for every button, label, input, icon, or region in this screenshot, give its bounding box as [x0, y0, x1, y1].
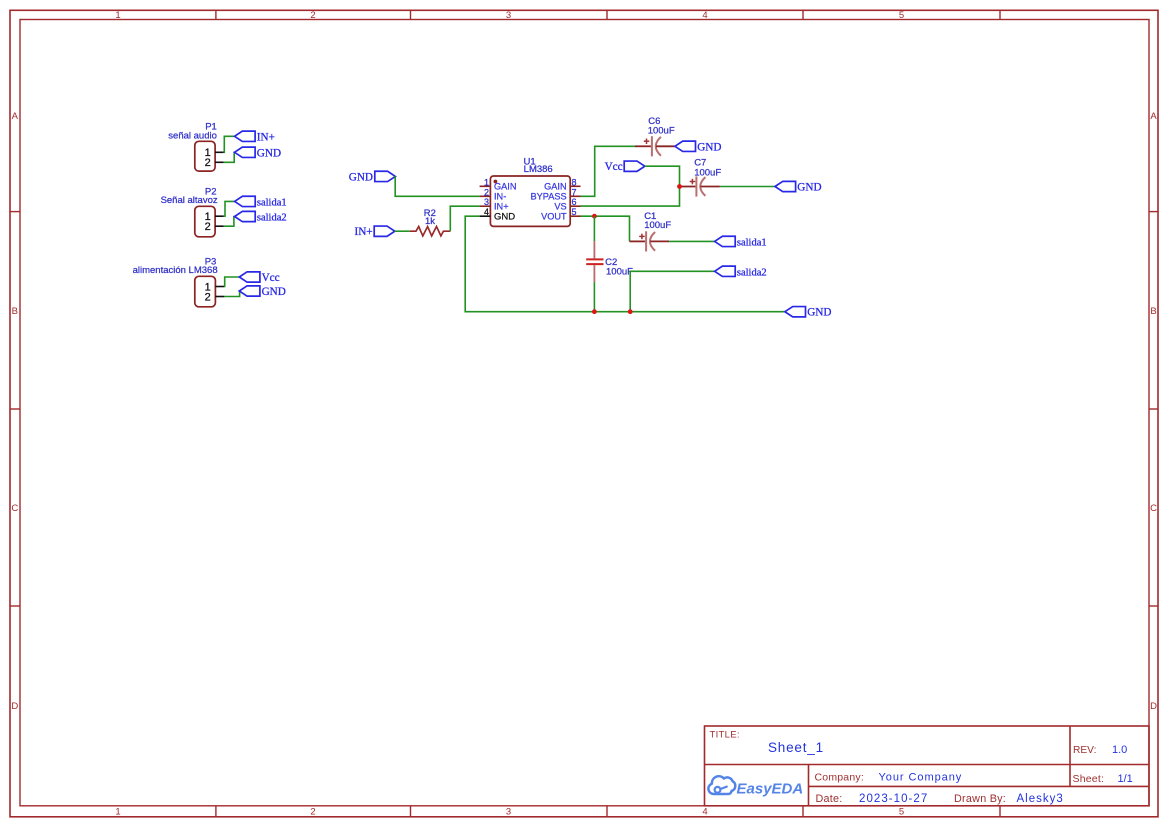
svg-text:100uF: 100uF	[648, 126, 675, 137]
wire IN+ flag to R2	[395, 230, 410, 232]
net flag Vcc (top)	[605, 161, 645, 173]
svg-text:GAIN: GAIN	[544, 182, 566, 192]
svg-text:B: B	[1150, 306, 1156, 317]
svg-text:1/1: 1/1	[1118, 773, 1133, 785]
net flag salida2 (right)	[715, 266, 767, 278]
net flag salida2 (P2)	[235, 211, 287, 223]
P1 pin 2 stub	[215, 161, 224, 163]
EasyEDA logo	[708, 776, 803, 797]
connector P2	[161, 187, 218, 237]
svg-text:GND: GND	[257, 147, 281, 159]
connector P3	[133, 256, 218, 306]
svg-text:2: 2	[205, 291, 211, 303]
svg-text:1: 1	[484, 177, 489, 187]
capacitor C7 100uF	[680, 158, 722, 197]
svg-text:Vcc: Vcc	[262, 272, 280, 284]
svg-text:EasyEDA: EasyEDA	[737, 781, 804, 798]
svg-text:alimentación LM368: alimentación LM368	[133, 265, 218, 276]
svg-text:señal audio: señal audio	[168, 131, 217, 142]
net flag GND (ground rail end)	[785, 307, 832, 319]
svg-text:salida2: salida2	[737, 267, 767, 278]
P2 pin 1 stub	[215, 215, 224, 217]
svg-text:3: 3	[506, 807, 511, 818]
U1 pin 1 (GAIN)	[480, 177, 517, 191]
svg-text:IN-: IN-	[494, 192, 506, 202]
net flag salida1 (P2)	[235, 196, 287, 208]
svg-text:GND: GND	[494, 211, 515, 222]
svg-text:1.0: 1.0	[1112, 744, 1127, 756]
svg-text:7: 7	[572, 187, 577, 197]
frame column ticks top	[216, 10, 1000, 19]
frame row letters right	[1150, 111, 1157, 712]
svg-text:D: D	[1150, 701, 1157, 712]
svg-text:Alesky3: Alesky3	[1017, 793, 1064, 805]
U1 pin 4 (GND)	[480, 207, 516, 222]
wire P3 pin1 to Vcc flag	[224, 277, 239, 287]
svg-text:1: 1	[115, 807, 120, 818]
resistor R2	[410, 208, 451, 236]
wire U1 pin4 to ground rail	[465, 216, 785, 312]
svg-text:salida2: salida2	[257, 213, 287, 224]
wire C2 to ground rail	[593, 282, 595, 312]
net flag GND (top left)	[349, 171, 396, 183]
wire R2 to U1 pin3	[450, 206, 479, 231]
junction salida2 branch / ground rail	[628, 309, 633, 314]
svg-text:3: 3	[506, 10, 511, 21]
svg-text:Drawn By:: Drawn By:	[954, 793, 1006, 805]
svg-text:salida1: salida1	[737, 237, 767, 248]
net flag salida1 (right)	[715, 236, 767, 248]
capacitor C6 100uF	[635, 116, 675, 156]
wire U1 pin7 to C6	[581, 146, 636, 196]
svg-text:Date:: Date:	[816, 793, 843, 805]
wire U1 pin5 to C1	[581, 216, 630, 241]
svg-text:GND: GND	[807, 307, 831, 319]
svg-text:GND: GND	[262, 286, 286, 298]
net flag Vcc (P3)	[239, 272, 279, 284]
svg-text:100uF: 100uF	[694, 167, 721, 178]
title block texts	[710, 730, 1133, 805]
net flag GND (right of C6)	[675, 141, 722, 153]
net flag GND (P3)	[239, 286, 286, 298]
svg-text:2: 2	[205, 157, 211, 169]
svg-text:VOUT: VOUT	[541, 211, 567, 221]
svg-text:A: A	[1150, 111, 1157, 122]
wire C7 to GND flag	[720, 186, 775, 188]
svg-text:100uF: 100uF	[606, 266, 633, 277]
wire salida2 flag to ground rail	[630, 271, 714, 311]
frame row letters left	[11, 111, 18, 712]
capacitor C1 100uF	[630, 211, 672, 252]
svg-text:1k: 1k	[425, 216, 435, 227]
svg-text:Señal altavoz: Señal altavoz	[161, 195, 218, 206]
U1 pin 5 (VOUT)	[541, 207, 580, 221]
svg-text:D: D	[11, 701, 18, 712]
svg-text:Vcc: Vcc	[605, 161, 623, 173]
svg-text:2023-10-27: 2023-10-27	[859, 793, 928, 805]
wire Vcc to U1 pin6	[581, 166, 680, 206]
svg-text:Company:: Company:	[815, 772, 864, 784]
junction C2 / ground rail	[592, 309, 597, 314]
connector P1	[168, 121, 217, 171]
svg-text:5: 5	[572, 207, 577, 217]
svg-text:GND: GND	[349, 171, 373, 183]
svg-text:REV:: REV:	[1073, 745, 1096, 756]
svg-text:LM386: LM386	[524, 164, 553, 175]
svg-text:salida1: salida1	[257, 197, 287, 208]
wire P1 pin1 to IN+ flag	[224, 136, 235, 152]
wire P2 pin2 to salida2 flag	[224, 217, 235, 227]
svg-text:4: 4	[484, 207, 489, 217]
net flag IN+ (left of R2)	[354, 226, 394, 238]
U1 pin 7 (BYPASS)	[531, 187, 581, 201]
capacitor C2 100uF	[586, 241, 633, 282]
svg-text:6: 6	[572, 197, 577, 207]
frame column numbers top	[115, 10, 904, 21]
wire C1 to salida1 flag	[669, 240, 715, 242]
U1 pin 8 (GAIN)	[544, 177, 580, 191]
P3 pin 2 stub	[215, 296, 224, 298]
svg-text:IN+: IN+	[354, 226, 372, 238]
svg-text:GAIN: GAIN	[494, 182, 516, 192]
wire U1 pin5 junction down to C2	[593, 216, 595, 241]
wire P3 pin2 to GND flag	[224, 291, 239, 297]
U1 pin 3 (IN+)	[480, 197, 509, 211]
P3 pin 1 stub	[215, 286, 224, 288]
frame column numbers bottom	[115, 807, 904, 818]
svg-text:TITLE:: TITLE:	[710, 730, 740, 741]
svg-text:4: 4	[702, 807, 707, 818]
title block border	[705, 726, 1150, 806]
frame row ticks left	[10, 212, 20, 606]
svg-text:IN+: IN+	[494, 201, 509, 211]
svg-text:C: C	[11, 503, 18, 514]
svg-text:100uF: 100uF	[644, 220, 671, 231]
svg-text:3: 3	[484, 197, 489, 207]
svg-text:GND: GND	[797, 182, 821, 194]
U1 pin 2 (IN-)	[480, 187, 507, 201]
svg-text:2: 2	[310, 10, 315, 21]
svg-text:A: A	[12, 111, 19, 122]
svg-text:Sheet:: Sheet:	[1073, 773, 1105, 785]
svg-text:VS: VS	[554, 201, 566, 211]
svg-text:C: C	[1150, 503, 1157, 514]
svg-text:2: 2	[205, 221, 211, 233]
svg-text:Your Company: Your Company	[879, 772, 963, 784]
svg-text:Sheet_1: Sheet_1	[768, 740, 824, 755]
svg-text:2: 2	[310, 807, 315, 818]
U1 pin 6 (VS)	[554, 197, 580, 211]
net flag GND (P1)	[235, 147, 282, 159]
wire P1 pin2 to GND flag	[224, 152, 235, 162]
P1 pin 1 stub	[215, 151, 224, 153]
wire P2 pin1 to salida1 flag	[224, 201, 235, 216]
svg-text:4: 4	[702, 10, 707, 21]
op-amp IC U1 LM386	[490, 157, 570, 227]
P2 pin 2 stub	[215, 225, 224, 227]
svg-text:BYPASS: BYPASS	[531, 192, 567, 202]
svg-text:B: B	[12, 306, 18, 317]
svg-text:5: 5	[899, 10, 904, 21]
junction Vcc / C7	[677, 184, 682, 189]
svg-text:8: 8	[572, 177, 577, 187]
svg-text:1: 1	[115, 10, 120, 21]
junction U1 pin5 / C2 branch	[592, 214, 597, 219]
svg-text:2: 2	[484, 187, 489, 197]
frame row ticks right	[1149, 212, 1158, 606]
frame column ticks bottom	[216, 806, 1000, 817]
net flag GND (right of C7)	[775, 181, 822, 193]
net flag IN+ (P1)	[235, 131, 275, 143]
svg-text:IN+: IN+	[257, 131, 275, 143]
svg-text:GND: GND	[697, 141, 721, 153]
wire GND flag to U1 pin2	[395, 176, 479, 196]
svg-text:5: 5	[899, 807, 904, 818]
